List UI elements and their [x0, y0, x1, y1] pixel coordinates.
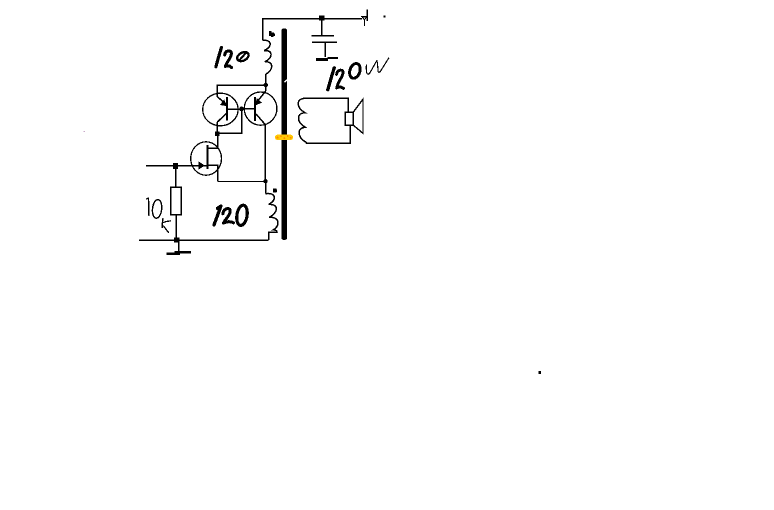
transistor Q3: [191, 142, 266, 182]
node: resistor top junction: [173, 163, 178, 169]
wire Q3 emitter input: [146, 165, 206, 167]
node: ground junction: [174, 238, 179, 243]
phase dot lower: [273, 189, 277, 193]
stray dot right middle: [539, 371, 541, 374]
node: Q1 collector / Q3 collector junction: [215, 131, 220, 136]
stray dot top right: [384, 16, 386, 18]
wire top rail to Q1: [217, 85, 265, 97]
transistor Q1: [203, 93, 242, 131]
phase dot upper: [269, 31, 275, 37]
ground: [166, 242, 191, 255]
wire junction to resistor: [175, 168, 177, 187]
node: Q2 collector / lower winding junction: [263, 179, 267, 183]
label 120 (lower primary): [214, 204, 249, 226]
wire bottom rail: [139, 239, 269, 241]
capacitor C1: [312, 19, 339, 61]
transistor Q2: [242, 85, 277, 179]
resistor R1 10k: [171, 187, 182, 215]
antenna / cursor mark: [361, 10, 367, 26]
wire resistor to bottom rail: [175, 215, 177, 240]
wire node down to Q3 collector: [208, 134, 217, 149]
wire base junction down-left to collector node: [219, 109, 242, 133]
speaker LS1: [345, 99, 363, 133]
wire top-left drop to upper winding: [262, 18, 264, 40]
orange gap marker: [275, 135, 293, 141]
stray pale pixel left: [84, 131, 85, 132]
label 120 (upper primary): [216, 48, 250, 68]
transformer core: [282, 29, 287, 240]
node: capacitor top junction: [319, 15, 324, 20]
transformer secondary winding: [298, 98, 350, 143]
wire top rail: [263, 18, 363, 20]
label 120 W (secondary): [328, 58, 389, 90]
node: Q1/Q2 base junction: [239, 107, 244, 112]
node: winding/emitter junction: [264, 83, 268, 87]
transformer primary lower winding: [265, 181, 267, 194]
transformer primary upper winding: [263, 40, 272, 75]
label 10 k: [147, 198, 171, 232]
